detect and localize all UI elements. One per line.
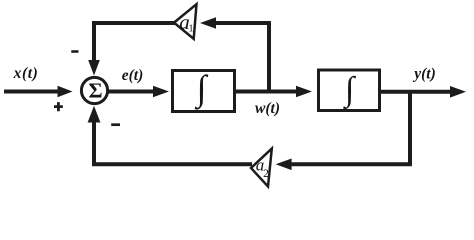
arrowhead into integrator 2	[296, 86, 312, 98]
arrowhead into a1	[200, 17, 216, 29]
svg-text:e(t): e(t)	[122, 67, 144, 84]
svg-text:y(t): y(t)	[412, 66, 436, 83]
wire output y(t)	[381, 90, 452, 94]
plus sign	[54, 102, 63, 111]
integrator block 2	[319, 70, 380, 111]
wire bottom feedback right segment	[291, 162, 412, 166]
wire tap w(t) up	[267, 23, 271, 92]
arrowhead into summer bottom	[88, 106, 101, 123]
svg-text:x(t): x(t)	[13, 65, 39, 82]
svg-text:w(t): w(t)	[255, 100, 280, 117]
amplifier a2	[251, 149, 272, 187]
arrowhead into summer	[58, 86, 73, 97]
wire integrator 1 to integrator 2	[236, 90, 297, 94]
svg-text:1: 1	[188, 24, 193, 35]
minus sign bottom	[111, 123, 120, 126]
wire top feedback right segment	[215, 21, 271, 25]
integrator block 1	[173, 71, 235, 112]
wire summer to integrator 1	[108, 90, 154, 94]
arrowhead into a2	[276, 159, 292, 171]
summer U1	[81, 77, 107, 103]
wire input x(t)	[4, 90, 62, 94]
arrowhead into integrator 1	[153, 86, 169, 98]
svg-text:Σ: Σ	[88, 79, 102, 103]
arrowhead output	[450, 86, 466, 98]
svg-text:2: 2	[263, 168, 269, 180]
minus sign top	[71, 50, 78, 53]
wire tap y(t) down	[408, 92, 412, 165]
wire a1 to summer top	[94, 23, 175, 60]
arrowhead into summer top	[88, 60, 100, 76]
wire a2 to summer bottom	[94, 122, 252, 164]
amplifier a1	[174, 4, 197, 39]
